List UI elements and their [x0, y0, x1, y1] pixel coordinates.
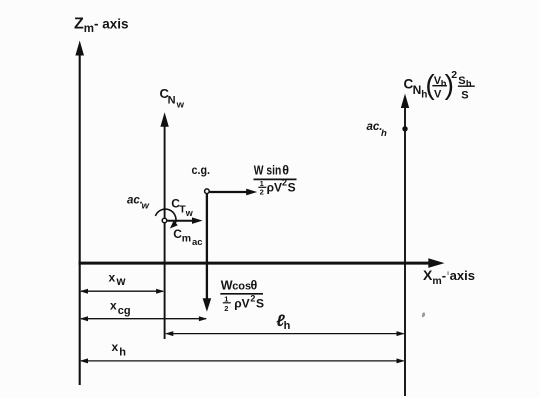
svg-text:w: w	[185, 208, 194, 218]
svg-text:V: V	[434, 88, 442, 100]
svg-text:N: N	[413, 83, 422, 97]
svg-text:2: 2	[224, 304, 228, 313]
svg-text:N: N	[168, 95, 176, 107]
svg-text:h: h	[284, 320, 291, 332]
svg-text:S: S	[461, 89, 468, 101]
svg-text:ρV: ρV	[267, 180, 282, 194]
svg-text:h: h	[381, 128, 387, 139]
svg-text:h: h	[119, 346, 126, 358]
svg-text:S: S	[256, 297, 264, 311]
svg-text:x: x	[110, 299, 117, 313]
svg-text:2: 2	[250, 293, 255, 303]
svg-text:2: 2	[451, 69, 457, 81]
svg-text:ac: ac	[192, 237, 203, 248]
svg-text:ρV: ρV	[234, 297, 249, 311]
svg-text:W sin: W sin	[254, 163, 281, 177]
svg-text:h: h	[466, 79, 472, 90]
svg-text:S: S	[458, 75, 465, 87]
svg-text:2: 2	[282, 177, 287, 187]
svg-text:x: x	[109, 270, 116, 284]
svg-text:m: m	[182, 233, 191, 245]
svg-text:w: w	[176, 100, 185, 111]
svg-text:x: x	[112, 340, 119, 354]
svg-text:θ: θ	[282, 164, 289, 178]
svg-text:c.g.: c.g.	[192, 163, 211, 177]
svg-text:W: W	[221, 278, 233, 292]
svg-text:2: 2	[260, 187, 264, 196]
svg-text:cos: cos	[232, 281, 251, 293]
svg-text:θ: θ	[251, 279, 258, 293]
svg-text:S: S	[288, 180, 296, 194]
svg-text:cg: cg	[118, 305, 131, 317]
svg-text:w: w	[142, 201, 150, 212]
svg-text:w: w	[116, 276, 126, 288]
svg-text:1: 1	[224, 294, 228, 303]
